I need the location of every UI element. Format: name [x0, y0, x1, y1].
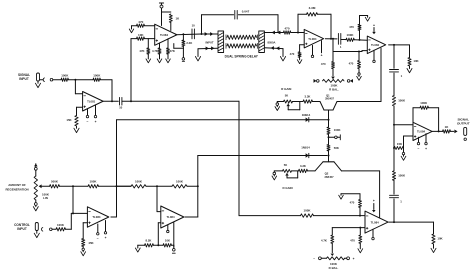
capacitor C5 1uF bus	[390, 69, 399, 71]
svg-text:+: +	[105, 236, 107, 240]
+V circle above U2	[160, 5, 163, 8]
U2 inv input arrow symbol	[131, 26, 133, 29]
pot R BAL 100K	[323, 79, 345, 82]
wire R11 to U4 inv	[354, 39, 367, 42]
D BAL wiper arrow	[331, 254, 335, 256]
ground below R35	[358, 249, 363, 253]
-V terminal bias	[173, 249, 176, 252]
resistor R24 45K	[82, 239, 85, 247]
resistor R21 500K	[50, 185, 60, 188]
wire R22 to U6 out node	[99, 185, 132, 187]
spring 2 end posts	[225, 43, 227, 48]
resistor R25 100K	[131, 185, 146, 188]
resistor R14 470	[358, 24, 361, 30]
pot P2 5K R GAIN	[284, 100, 293, 103]
R BAL wiper arrow	[331, 77, 335, 80]
bias node junction	[154, 244, 164, 246]
wire pot to R32	[292, 170, 299, 172]
wire CV node down	[72, 186, 74, 213]
bus wire R18 to C6	[393, 181, 395, 195]
U8 inv bracket	[359, 208, 361, 216]
wire gnd to pot D	[274, 170, 282, 172]
resistor R10 470	[298, 52, 301, 58]
delay output lower wire	[264, 47, 283, 50]
D BAL right terminal	[345, 257, 347, 259]
svg-text:8.2K: 8.2K	[146, 239, 152, 243]
resistor R26 100K fb U7	[172, 185, 187, 188]
svg-text:10K: 10K	[413, 59, 419, 63]
svg-text:REGENERATION: REGENERATION	[5, 187, 28, 191]
R BAL right terminal	[347, 80, 350, 83]
svg-text:10: 10	[192, 24, 196, 28]
svg-text:470: 470	[350, 201, 355, 205]
ground U8 bracket	[339, 195, 344, 199]
delay input transducer coil	[218, 31, 224, 53]
resistor R16 100K bus	[392, 96, 395, 107]
wire U3 out down to R BAL	[332, 39, 334, 52]
R GAIN ground	[276, 102, 278, 103]
svg-text:+: +	[321, 54, 323, 58]
ground delay input	[197, 49, 199, 57]
ground below R24	[82, 247, 84, 249]
pot P4 100K D BAL	[327, 257, 345, 260]
U1 V- supply pin	[87, 109, 89, 115]
U4 bracket top wire	[359, 16, 361, 25]
U3 feedback top wire	[298, 13, 307, 15]
svg-text:100K: 100K	[176, 179, 184, 183]
bus wire U4 out down	[393, 45, 395, 68]
resistor R9 3.3M feedback	[307, 13, 318, 16]
wire U1 out to C1	[103, 100, 119, 102]
wire R1 to node B	[69, 79, 94, 81]
op-amp U8	[365, 211, 388, 233]
P1 wiper arrow	[39, 184, 42, 188]
junction D1 line at Q1 gate	[328, 119, 330, 121]
bus wire down to R18	[393, 148, 395, 171]
svg-text:100K: 100K	[347, 33, 355, 37]
svg-text:+: +	[373, 199, 375, 203]
wire U7 inv down	[156, 186, 158, 211]
svg-text:4.7K: 4.7K	[321, 239, 327, 243]
wire U4 output	[389, 44, 410, 46]
wire U3 out	[325, 38, 337, 40]
wire U8 output	[389, 221, 434, 223]
op-amp U5	[413, 122, 432, 140]
ground below J2	[36, 231, 38, 234]
svg-text:100K: 100K	[57, 223, 65, 227]
wire R28 to -V	[172, 244, 174, 246]
svg-text:TL084: TL084	[417, 130, 426, 134]
node A junction	[130, 100, 132, 102]
bypass wire down to U3 input	[277, 15, 279, 33]
R6 stem to U2 edge	[170, 23, 172, 31]
U6 noninv wire	[83, 222, 87, 224]
capacitor C3 0.047	[234, 11, 236, 20]
pot P1 100K LIN	[34, 176, 37, 200]
op-amp U1	[83, 92, 104, 112]
svg-text:100K: 100K	[398, 99, 406, 103]
U8 noninv wire	[332, 227, 365, 229]
U3 feedback up wire	[297, 14, 299, 32]
plug symbol at J2	[42, 228, 43, 232]
spring 1 end posts	[225, 35, 227, 40]
svg-text:R GAIN: R GAIN	[281, 87, 291, 91]
resistor R22 100K fb U6	[88, 185, 99, 188]
svg-text:470: 470	[349, 62, 354, 66]
ground below J1	[37, 81, 39, 83]
op-amp U3	[304, 29, 323, 48]
resistor R34 470	[359, 200, 362, 208]
wire R2 to U1 output	[101, 79, 113, 81]
ground below R3	[76, 126, 78, 128]
arrows delay output upper	[272, 31, 275, 35]
svg-text:LIN: LIN	[43, 196, 48, 200]
resistor R17 15K	[394, 147, 404, 150]
svg-text:3.3K: 3.3K	[305, 95, 311, 99]
jack J1 signal input	[37, 73, 40, 81]
resistor R11 100K	[346, 38, 354, 41]
svg-text:+: +	[95, 120, 97, 124]
gate divider node	[328, 135, 330, 145]
svg-text:TL081: TL081	[87, 99, 96, 103]
resistor R13 470 to ground	[358, 52, 360, 61]
-V below regen pot	[35, 200, 37, 203]
resistor R29 100K gate	[327, 127, 330, 135]
wire node A vert to R5	[131, 38, 137, 40]
wire R23 to U6 inv	[66, 228, 72, 230]
svg-text:10K: 10K	[138, 33, 144, 37]
U6 out node junction	[116, 185, 118, 187]
svg-text:+: +	[425, 147, 427, 151]
wire R30 to Q2 gate	[328, 151, 330, 162]
ground below R10	[299, 57, 301, 59]
svg-text:100K: 100K	[90, 180, 98, 184]
svg-text:5K: 5K	[285, 93, 288, 97]
wire U2 output	[176, 33, 202, 36]
diode D2 1N914	[306, 153, 309, 157]
svg-text:470: 470	[321, 62, 326, 66]
wire J1 to plug	[40, 79, 44, 81]
arrows delay input lower	[206, 47, 209, 51]
resistor R18 100K bus lower	[392, 171, 395, 181]
resistor R1 100K	[61, 78, 69, 81]
svg-text:3.3M: 3.3M	[309, 6, 316, 10]
svg-text:+: +	[353, 257, 355, 261]
svg-text:10K: 10K	[437, 237, 443, 241]
wire R5 to U2 noninv	[145, 38, 155, 40]
wire R4 to U2 inv	[145, 25, 155, 27]
ground below R13	[358, 69, 360, 73]
wire R32 to Q2	[308, 170, 316, 172]
bypass wire left section	[202, 14, 234, 16]
wire arrow to R4	[132, 25, 137, 27]
transistor Q1 2N5457	[313, 101, 321, 103]
CV node junction	[72, 185, 74, 187]
wire +V to R6	[162, 11, 171, 13]
diode D1 1N914	[306, 118, 309, 122]
op-amp U4	[367, 36, 385, 54]
U3 feedback right wire	[318, 13, 332, 15]
ground below 15K node	[403, 148, 405, 152]
node circle input	[50, 78, 53, 81]
wire from Q1 drain up to U4	[380, 48, 382, 101]
op-amp U6	[87, 207, 108, 227]
D BAL left terminal	[321, 257, 326, 259]
delay output transducer coil	[259, 31, 265, 53]
U1 noninv wire	[77, 106, 83, 108]
svg-text:100K: 100K	[334, 128, 341, 132]
wire R33 to U8 inv	[314, 215, 366, 217]
+V stem into U2	[161, 8, 163, 26]
svg-text:10: 10	[119, 106, 123, 110]
offset tap wire	[329, 136, 335, 138]
resistor R4 470	[137, 24, 145, 27]
svg-text:TL084: TL084	[92, 215, 101, 219]
U6 V+ supply pin	[105, 221, 107, 232]
wire to R1	[53, 79, 61, 81]
svg-text:DUAL SPRING DELAY: DUAL SPRING DELAY	[225, 55, 259, 59]
svg-text:TL084: TL084	[308, 37, 317, 41]
wire up from node to bypass	[201, 15, 203, 34]
svg-text:15K: 15K	[397, 142, 403, 146]
svg-text:470: 470	[138, 20, 143, 24]
node B junction	[74, 79, 76, 81]
wire pot to R31	[293, 101, 304, 103]
R7 strap to op-amp pin	[174, 47, 184, 49]
svg-text:470: 470	[350, 239, 355, 243]
wire R8 to U3 inv	[291, 32, 304, 34]
wire Q2 down to U8	[379, 171, 381, 218]
svg-text:−: −	[87, 120, 89, 124]
capacitor C1 10uF	[119, 98, 121, 106]
U1 V+ supply pin	[95, 105, 97, 115]
U8 V- supply pin	[372, 229, 374, 237]
svg-text:8050A: 8050A	[268, 41, 276, 45]
U6 V- supply pin	[97, 224, 99, 232]
Q1 gate wire	[328, 110, 330, 127]
bus wire C6 to U8 output	[393, 199, 395, 222]
svg-text:470: 470	[284, 26, 289, 30]
resistor R2 100K feedback	[93, 78, 101, 81]
P3 wiper loop	[285, 173, 289, 175]
U8 bracket top	[359, 194, 361, 200]
svg-text:3.3K: 3.3K	[300, 164, 306, 168]
U7 supply stub	[173, 223, 175, 249]
svg-text:TL084: TL084	[371, 43, 380, 47]
svg-text:2N5457: 2N5457	[325, 98, 334, 101]
svg-text:100K: 100K	[93, 74, 101, 78]
capacitor C2 10uF drive	[191, 29, 193, 39]
U3 V+ supply pin	[321, 41, 323, 53]
bus wire to 15K node	[393, 125, 395, 148]
svg-text:1N914: 1N914	[301, 146, 310, 150]
wire 15K corner to U5 noninv	[403, 136, 405, 148]
resistor R5 10K	[137, 37, 145, 40]
pot P3 5K D GAIN	[283, 169, 292, 172]
wire R25 to U7 inv node	[146, 185, 172, 187]
resistor R6 1K	[169, 14, 172, 23]
resistor R31 3.3K	[303, 100, 313, 103]
U3 V- supply pin	[312, 45, 314, 55]
resistor R20 1K output	[443, 130, 451, 133]
terminal circle below R7	[182, 58, 185, 61]
resistor R19 100K feedback	[420, 106, 429, 109]
wire node A long right	[131, 100, 239, 102]
U2 resistor column 1 47K	[147, 39, 149, 48]
plug symbol at J1	[43, 78, 44, 82]
U4 V- supply pin	[373, 50, 375, 60]
CV line 1 wire	[117, 119, 329, 121]
wire U6 out up	[111, 216, 117, 218]
-V arrow below R15	[407, 69, 412, 73]
wire ground to R27	[138, 244, 145, 246]
svg-text:0.047: 0.047	[242, 9, 250, 13]
svg-text:47K: 47K	[139, 49, 144, 53]
resistor R7 2.2K below output	[182, 34, 184, 40]
node before delay	[201, 33, 203, 35]
resistor R36 4.7K to wiper	[331, 228, 333, 235]
svg-text:45K: 45K	[88, 241, 94, 245]
delay input lower wire	[198, 47, 218, 50]
svg-text:TL084: TL084	[371, 220, 380, 224]
capacitor C4 1uF	[337, 34, 339, 45]
svg-text:470: 470	[349, 25, 354, 29]
wire R21 to CV node	[60, 185, 89, 187]
wire node B down to U1 inv	[74, 80, 76, 94]
svg-text:−: −	[313, 257, 315, 261]
+V above regen pot	[34, 164, 38, 167]
wire R26 to U7 out node	[187, 185, 198, 187]
wire R20 to output jack	[451, 130, 454, 132]
wire wiper to R21	[42, 185, 50, 187]
op-amp U7	[161, 206, 184, 228]
node circle control	[50, 228, 53, 231]
arrows delay output lower	[271, 46, 274, 50]
U2 resistor column 2 4.7K	[159, 43, 161, 48]
bus wire C5 to R16	[393, 73, 395, 95]
svg-text:−: −	[97, 237, 99, 241]
ground below R37	[431, 248, 436, 252]
U3 noninv wire	[300, 44, 305, 46]
spring 1	[227, 35, 257, 39]
CV line 2 wire	[198, 155, 327, 157]
ground left of bias row	[135, 248, 140, 252]
U5 V- supply pin	[418, 137, 420, 142]
D GAIN ground	[273, 171, 275, 172]
resistor R28 10K	[163, 244, 172, 247]
svg-text:INPUT: INPUT	[205, 41, 213, 45]
resistor R30 56K	[327, 145, 330, 152]
wire bus to U5 inv	[394, 124, 413, 126]
U5 V+ supply pin	[425, 134, 427, 143]
ground U4 bracket	[365, 17, 370, 21]
wire C1 to node A	[122, 100, 131, 102]
wire to R23	[52, 228, 56, 230]
U5 feedback loop	[412, 108, 414, 125]
transistor Q2 2N5457	[323, 161, 334, 163]
svg-text:INPUT: INPUT	[17, 227, 27, 231]
U7 noninv wire	[158, 222, 161, 224]
svg-text:100K: 100K	[420, 101, 428, 105]
delay output upper wire	[264, 32, 283, 34]
svg-text:100K: 100K	[304, 208, 312, 212]
dry wire down	[238, 101, 240, 215]
svg-text:4.7K: 4.7K	[152, 49, 158, 53]
resistor R35 470 to gnd	[359, 228, 361, 235]
arrows into delay input	[205, 32, 208, 36]
resistor R23 100K	[56, 228, 66, 231]
svg-text:TL084: TL084	[166, 215, 175, 219]
jack J2 control input	[35, 223, 38, 231]
resistor R8 470 delay out	[283, 31, 290, 34]
resistor R32 3.3K	[299, 169, 308, 172]
bus wire R16 to U5 node	[393, 106, 395, 125]
resistor R27 8.2K	[145, 244, 154, 247]
op-amp U2	[155, 24, 177, 45]
svg-text:100K: 100K	[398, 174, 406, 178]
svg-text:100K: 100K	[61, 74, 69, 78]
svg-text:D BAL.: D BAL.	[329, 266, 339, 270]
resistor R33 100K dry	[301, 214, 314, 217]
svg-text:500K: 500K	[51, 180, 59, 184]
svg-text:2N5457: 2N5457	[324, 175, 334, 179]
svg-text:+: +	[373, 23, 375, 27]
svg-text:47K: 47K	[170, 49, 175, 53]
U4 inv bracket wire	[359, 30, 361, 40]
wire U6out node to R25	[117, 185, 132, 187]
svg-text:−: −	[418, 147, 420, 151]
R BAL top wire	[333, 51, 362, 53]
U5 feedback right wire	[429, 107, 439, 109]
P2 wiper loop	[286, 104, 290, 106]
wire U5 out	[432, 130, 442, 132]
resistor R15 10K to -V	[409, 45, 411, 58]
svg-text:1N914: 1N914	[302, 113, 311, 117]
svg-text:2.2K: 2.2K	[186, 41, 192, 45]
svg-text:100K: 100K	[135, 179, 143, 183]
svg-text:OUTPUT: OUTPUT	[457, 122, 470, 126]
svg-text:10K: 10K	[165, 239, 170, 243]
dry wire to R33	[239, 215, 301, 217]
svg-text:TL084: TL084	[160, 33, 169, 37]
U2 resistor column 3 47K	[167, 39, 169, 48]
resistor R12 470 to wiper	[332, 52, 334, 62]
+V terminal above U2	[159, 2, 163, 4]
ground delay output	[282, 49, 284, 57]
svg-text:D GAIN: D GAIN	[282, 186, 292, 190]
svg-text:5K: 5K	[284, 163, 287, 167]
jack J3 signal output	[464, 127, 467, 135]
spring 2	[227, 44, 257, 48]
capacitor C6 1uF bus lower	[390, 194, 399, 196]
wire gnd to pot	[277, 101, 283, 103]
resistor R3 15K	[75, 116, 78, 127]
svg-text:INPUT: INPUT	[19, 77, 29, 81]
R BAL left terminal	[317, 80, 320, 83]
wire U7 out up	[185, 216, 198, 218]
svg-text:R BAL.: R BAL.	[329, 88, 339, 92]
wire node A up to U2 input	[130, 39, 132, 102]
R7 stem to terminal	[182, 48, 184, 57]
svg-text:56K: 56K	[334, 146, 339, 150]
wire C4 to R11	[341, 39, 346, 41]
svg-text:470: 470	[290, 52, 295, 56]
bypass wire right section	[238, 14, 278, 16]
svg-text:15K: 15K	[66, 118, 72, 122]
resistor R37 10K	[433, 222, 435, 234]
